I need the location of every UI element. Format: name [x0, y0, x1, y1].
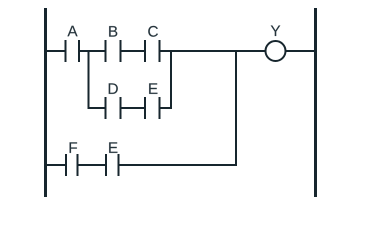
wire contact A to contact B (branch node) — [79, 50, 106, 52]
wire rung2 left rail to contact F — [44, 164, 66, 166]
contact D — [106, 83, 121, 119]
right power rail — [314, 8, 317, 197]
wire contact B to contact C — [121, 50, 146, 52]
wire rung1 left rail to contact A — [44, 50, 66, 52]
wire contact F to contact E2 — [78, 164, 107, 166]
wire contact D to contact E — [121, 107, 146, 109]
contact E (branch) — [145, 83, 160, 119]
wire junction vertical rung2 up to rung1 — [235, 50, 237, 166]
left power rail — [44, 8, 47, 197]
contact E2 — [106, 142, 119, 176]
wire branch left corner to contact D — [88, 107, 106, 109]
wire coil Y to right rail — [286, 50, 316, 52]
contact C — [145, 26, 160, 62]
wire contact E to branch right corner — [160, 107, 173, 109]
coil Y — [266, 25, 286, 61]
contact B — [106, 26, 121, 62]
wire branch right vertical — [170, 50, 172, 109]
contact A — [66, 26, 80, 62]
wire contact E2 to junction corner — [119, 164, 238, 166]
wire branch left vertical — [88, 50, 90, 109]
wire contact C to coil Y — [160, 50, 266, 52]
contact F — [66, 142, 78, 176]
